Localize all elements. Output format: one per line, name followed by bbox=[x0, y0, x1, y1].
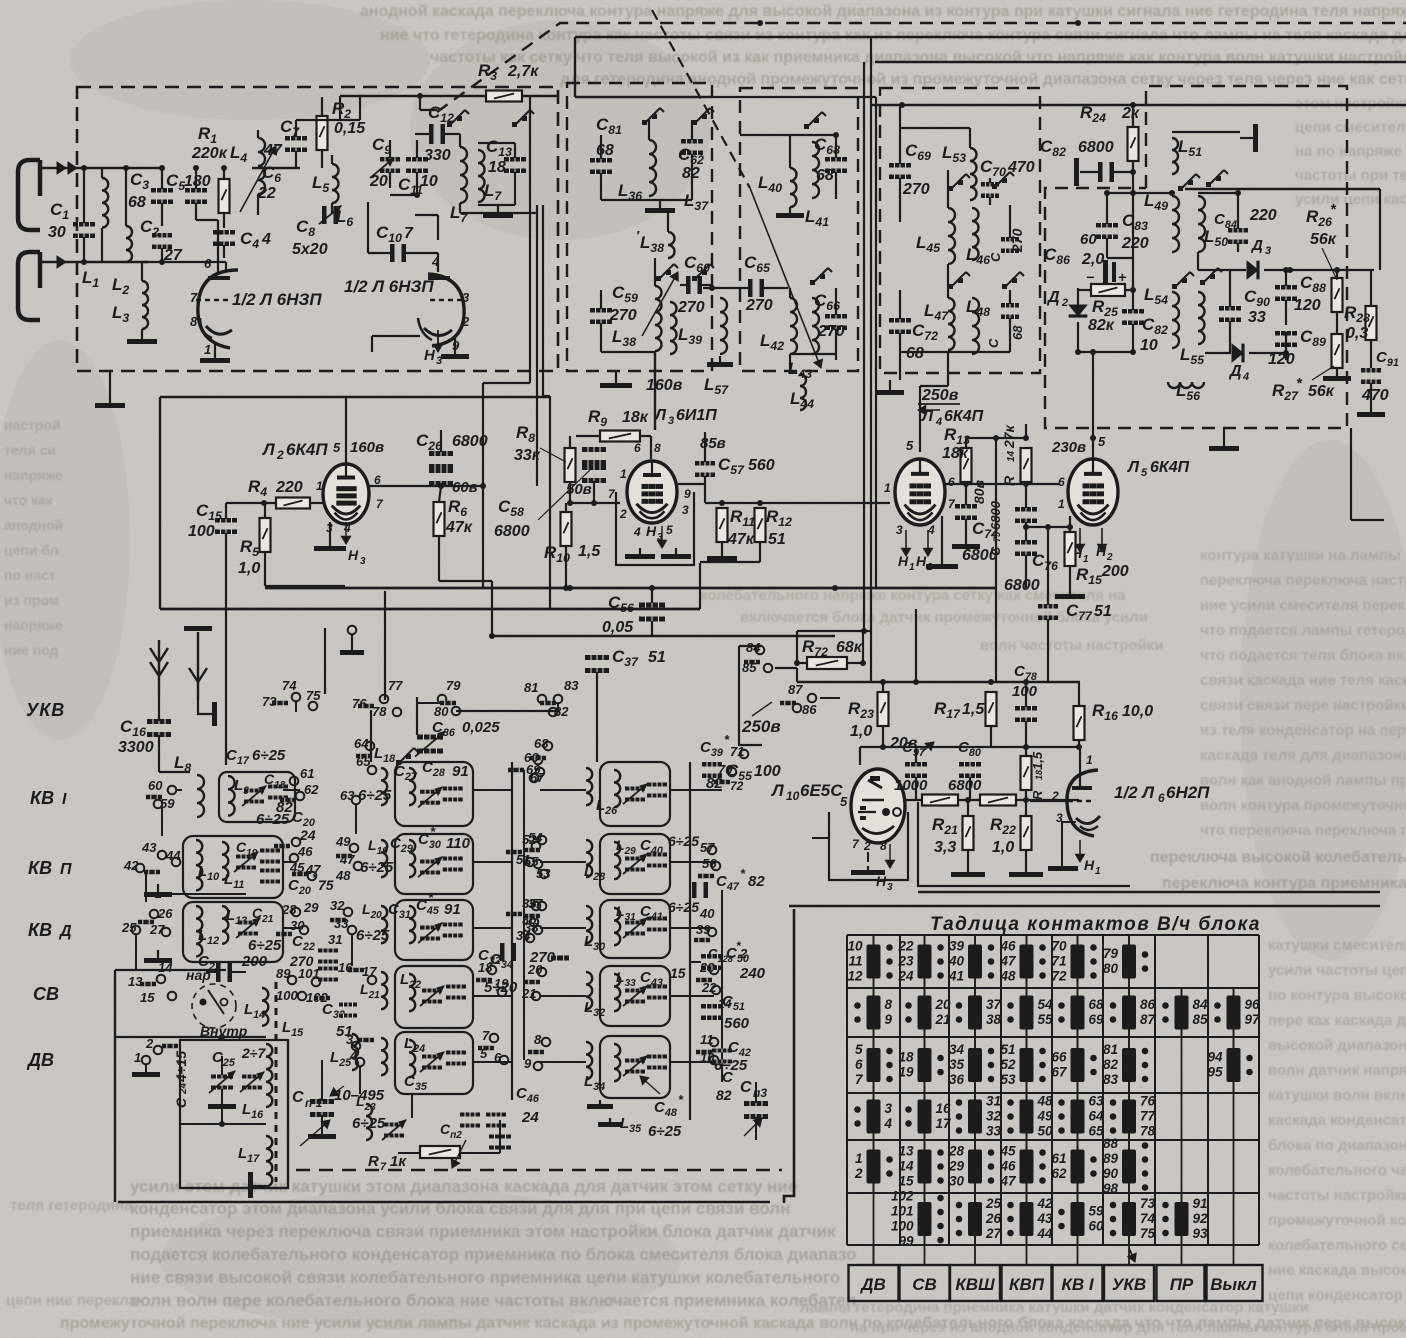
tube L10 gnd bbox=[867, 852, 869, 862]
svg-text:что подается лампы гетероди: что подается лампы гетероди bbox=[1200, 622, 1406, 639]
table cells bbox=[867, 945, 881, 979]
svg-text:86: 86 bbox=[1140, 997, 1156, 1012]
svg-text:56к: 56к bbox=[1310, 231, 1337, 248]
ground L36 L37 bbox=[601, 199, 692, 201]
coil L6 bbox=[460, 147, 467, 203]
svg-text:3: 3 bbox=[896, 523, 903, 537]
node A1 bbox=[81, 165, 87, 171]
svg-text:470: 470 bbox=[1361, 387, 1389, 404]
svg-text:16: 16 bbox=[936, 1101, 952, 1116]
wire 87 bbox=[820, 697, 840, 699]
svg-text:анодной каскада переключа конт: анодной каскада переключа контура напряж… bbox=[360, 3, 1406, 20]
switch S4b bbox=[948, 284, 953, 289]
resistor R14 bbox=[1021, 448, 1032, 482]
wire IF3 bottom bbox=[900, 351, 1010, 353]
resistor R10 bbox=[561, 512, 572, 546]
svg-text:6: 6 bbox=[1158, 791, 1165, 805]
svg-text:3: 3 bbox=[887, 882, 893, 893]
svg-text:10: 10 bbox=[786, 789, 800, 803]
svg-text:63: 63 bbox=[340, 788, 355, 803]
svg-text:2: 2 bbox=[276, 448, 284, 462]
svg-text:100: 100 bbox=[891, 1219, 914, 1234]
svg-text:4: 4 bbox=[633, 525, 641, 539]
svg-text:6: 6 bbox=[948, 475, 955, 489]
svg-text:68: 68 bbox=[1010, 325, 1025, 340]
wire tank top bbox=[478, 142, 515, 144]
resistor R16 bbox=[1074, 706, 1085, 740]
svg-text:усили частоты цепи: усили частоты цепи bbox=[1268, 962, 1406, 979]
svg-text:2к: 2к bbox=[1121, 105, 1140, 122]
svg-text:68к: 68к bbox=[836, 639, 863, 656]
svg-text:Д: Д bbox=[1228, 363, 1242, 380]
svg-text:промежуточной колеб: промежуточной колеб bbox=[1268, 1212, 1406, 1229]
svg-text:СВ: СВ bbox=[33, 984, 59, 1004]
ground R11 bbox=[721, 552, 723, 556]
coil L55 bbox=[1198, 292, 1205, 344]
switch S5b bbox=[1172, 284, 1177, 289]
svg-text:240: 240 bbox=[739, 965, 766, 982]
capacitor C88 bbox=[1275, 285, 1297, 290]
resistor R12 bbox=[755, 508, 766, 542]
svg-text:переключа переключа настрой: переключа переключа настрой bbox=[1200, 572, 1406, 589]
double rule upper bbox=[918, 891, 1380, 894]
svg-text:97: 97 bbox=[1245, 1012, 1262, 1027]
svg-text:R: R bbox=[1030, 790, 1045, 800]
wire osc-mixer bbox=[367, 202, 369, 253]
coil L39 bbox=[670, 302, 677, 354]
svg-text:2,7к: 2,7к bbox=[507, 63, 539, 80]
svg-text:6К4П: 6К4П bbox=[286, 440, 328, 459]
svg-text:200: 200 bbox=[1101, 563, 1129, 580]
svg-text:67: 67 bbox=[1051, 1065, 1068, 1080]
svg-text:91: 91 bbox=[1193, 1196, 1208, 1211]
svg-text:9: 9 bbox=[885, 1012, 893, 1027]
svg-text:79: 79 bbox=[446, 678, 461, 693]
svg-text:82: 82 bbox=[1103, 1057, 1119, 1072]
svg-text:56к: 56к bbox=[1308, 383, 1335, 400]
IF box 1 dashed bbox=[567, 83, 712, 371]
svg-text:22: 22 bbox=[897, 939, 914, 954]
resistor R28 bbox=[1366, 306, 1377, 340]
capacitor C36 trimmer bbox=[417, 735, 443, 740]
resistor R8 bbox=[565, 448, 576, 482]
wire IF1 bottom bbox=[601, 351, 655, 353]
svg-text:6÷25: 6÷25 bbox=[256, 811, 290, 828]
svg-text:22: 22 bbox=[257, 185, 276, 202]
ground below UKV box bbox=[109, 371, 111, 403]
tube L10 box bbox=[829, 812, 908, 880]
wire bus v6 bbox=[875, 97, 877, 588]
ground L40 bbox=[789, 207, 791, 213]
trimmers Cp2 bbox=[384, 1123, 404, 1127]
trimmer C8 bbox=[322, 206, 327, 224]
capacitor C50 bbox=[701, 954, 723, 959]
coil L56 bbox=[1168, 382, 1204, 388]
svg-text:ние что гетеродина контура как: ние что гетеродина контура как частоты с… bbox=[380, 27, 1406, 44]
svg-text:85: 85 bbox=[742, 660, 757, 675]
svg-text:1: 1 bbox=[316, 479, 323, 493]
chassis L51 bbox=[1253, 124, 1258, 152]
ground KV3 bbox=[157, 950, 159, 958]
svg-text:270: 270 bbox=[817, 323, 845, 340]
triode V1b cathode bbox=[424, 328, 452, 336]
ground C74 bbox=[965, 540, 967, 544]
resistor R11 bbox=[717, 508, 728, 542]
wire grid bus bbox=[369, 485, 483, 487]
svg-text:54: 54 bbox=[528, 830, 543, 845]
capacitor C70 bbox=[981, 182, 999, 187]
cell L34 bbox=[600, 1036, 670, 1098]
trimmer C17 bbox=[244, 789, 264, 793]
capacitor C80 bbox=[959, 762, 981, 767]
svg-text:75: 75 bbox=[1140, 1226, 1156, 1241]
svg-text:82: 82 bbox=[748, 873, 765, 890]
svg-text:28: 28 bbox=[948, 1144, 965, 1159]
capacitor C15 bbox=[215, 518, 237, 523]
svg-text:41: 41 bbox=[948, 969, 964, 984]
svg-text:49: 49 bbox=[335, 834, 351, 849]
capacitor C12 bbox=[429, 124, 434, 144]
svg-text:высокой диапазона: высокой диапазона bbox=[1268, 1037, 1406, 1054]
svg-text:2: 2 bbox=[461, 314, 470, 329]
svg-text:УКВ: УКВ bbox=[26, 700, 65, 720]
wire bus v1 bbox=[529, 97, 531, 383]
svg-text:29: 29 bbox=[948, 1159, 965, 1174]
wire mid bbox=[142, 261, 226, 263]
ground L34 bbox=[599, 1100, 601, 1104]
resistor R25 bbox=[1091, 284, 1125, 296]
capacitor C65 bbox=[748, 279, 753, 297]
svg-text:4: 4 bbox=[884, 1116, 893, 1131]
svg-text:81: 81 bbox=[1103, 1042, 1118, 1057]
svg-text:1/2 Л 6НЗП: 1/2 Л 6НЗП bbox=[344, 277, 434, 296]
svg-text:6÷25: 6÷25 bbox=[358, 787, 392, 804]
switch S5a bbox=[1178, 186, 1183, 191]
svg-text:45: 45 bbox=[999, 1144, 1016, 1159]
svg-text:24: 24 bbox=[897, 969, 914, 984]
svg-text:Выкл: Выкл bbox=[1210, 1275, 1257, 1294]
svg-text:31: 31 bbox=[328, 932, 342, 947]
capacitor C2 bbox=[152, 233, 172, 238]
wire C75 node bbox=[1026, 526, 1070, 528]
svg-text:пере как каскада дл: пере как каскада дл bbox=[1268, 1012, 1406, 1029]
svg-text:250в: 250в bbox=[741, 717, 781, 736]
UKV unit dashed enclosure bbox=[77, 87, 558, 371]
coil L12 bbox=[196, 906, 202, 956]
bus y682 bbox=[797, 681, 1080, 683]
svg-text:38: 38 bbox=[986, 1012, 1002, 1027]
svg-text:82: 82 bbox=[682, 165, 700, 182]
svg-text:каскада теля для диапазона: каскада теля для диапазона bbox=[1200, 747, 1406, 764]
svg-text:48: 48 bbox=[999, 969, 1016, 984]
trimmer C21 bbox=[238, 921, 258, 925]
capacitor C84 bbox=[1228, 228, 1248, 233]
svg-text:15: 15 bbox=[898, 1174, 914, 1189]
svg-text:18: 18 bbox=[488, 159, 506, 176]
switch S2a bbox=[642, 120, 647, 125]
wire v385 bbox=[384, 591, 386, 700]
capacitor C83 bbox=[1096, 223, 1118, 228]
coil L38 bbox=[655, 286, 662, 351]
svg-text:5: 5 bbox=[480, 1046, 488, 1061]
capacitor C75 bbox=[1015, 507, 1037, 512]
triode L6 grid bbox=[1068, 800, 1094, 802]
svg-text:46: 46 bbox=[297, 844, 313, 859]
svg-text:68: 68 bbox=[906, 345, 924, 362]
tube L5 arrows bbox=[1079, 528, 1081, 552]
svg-text:теля си: теля си bbox=[4, 442, 56, 458]
svg-text:усили цепи каск: усили цепи каск bbox=[1295, 191, 1406, 208]
capacitor C51 bbox=[701, 1004, 723, 1009]
svg-text:64: 64 bbox=[1089, 1109, 1105, 1124]
svg-text:катушки волн включа: катушки волн включа bbox=[1268, 1087, 1406, 1104]
svg-text:50: 50 bbox=[1038, 1124, 1054, 1139]
cell L30 C41 bbox=[600, 900, 670, 958]
svg-text:47: 47 bbox=[999, 1174, 1017, 1189]
svg-text:6800: 6800 bbox=[1078, 139, 1114, 156]
svg-text:71: 71 bbox=[1051, 954, 1066, 969]
svg-text:110: 110 bbox=[446, 835, 471, 852]
triode V1b anode bbox=[428, 276, 450, 280]
coil L41 bbox=[812, 142, 819, 198]
svg-text:приемника через переключа связ: приемника через переключа связи приемник… bbox=[130, 1222, 836, 1241]
switch S1a bbox=[447, 122, 452, 127]
svg-text:160в: 160в bbox=[646, 377, 683, 394]
capacitor C22 bbox=[318, 949, 338, 953]
svg-text:80в: 80в bbox=[971, 479, 987, 504]
svg-text:5: 5 bbox=[840, 794, 848, 809]
svg-text:КВП: КВП bbox=[1009, 1275, 1045, 1294]
svg-text:270: 270 bbox=[902, 181, 930, 198]
resistor R15 bbox=[1065, 532, 1076, 566]
capacitor C86 electrolytic bbox=[1103, 260, 1108, 284]
capacitor C4 bbox=[213, 230, 235, 235]
svg-text:УКВ: УКВ bbox=[1112, 1275, 1146, 1294]
svg-text:46: 46 bbox=[999, 1159, 1016, 1174]
tube L10 6E5C bbox=[851, 769, 905, 843]
svg-text:14: 14 bbox=[898, 1159, 914, 1174]
ground R15 bbox=[1069, 590, 1071, 594]
resistor R7 bbox=[420, 1146, 460, 1158]
svg-text:83: 83 bbox=[564, 678, 579, 693]
svg-text:R: R bbox=[1001, 475, 1017, 486]
svg-text:10: 10 bbox=[1140, 337, 1158, 354]
svg-text:4: 4 bbox=[431, 254, 440, 269]
svg-text:R: R bbox=[368, 1153, 379, 1170]
svg-text:11: 11 bbox=[848, 954, 862, 969]
wire bus v5 bbox=[870, 37, 872, 682]
svg-text:34: 34 bbox=[949, 1042, 965, 1057]
svg-text:87: 87 bbox=[1140, 1012, 1157, 1027]
svg-text:13: 13 bbox=[128, 974, 143, 989]
coil L38p bbox=[668, 232, 675, 258]
wire bottom rail V1 bbox=[225, 262, 227, 272]
capacitor C68 bbox=[825, 157, 847, 162]
svg-text:74: 74 bbox=[1140, 1211, 1156, 1226]
svg-text:37: 37 bbox=[986, 997, 1003, 1012]
svg-text:7: 7 bbox=[380, 1161, 387, 1173]
resistor R6 bbox=[434, 502, 445, 536]
svg-text:1,0: 1,0 bbox=[850, 723, 872, 740]
svg-text:14: 14 bbox=[158, 960, 173, 975]
svg-text:270: 270 bbox=[1009, 228, 1025, 253]
svg-text:44: 44 bbox=[165, 848, 181, 863]
svg-text:2,0: 2,0 bbox=[1081, 251, 1104, 268]
wire R72 rail bbox=[797, 630, 871, 632]
svg-text:76: 76 bbox=[352, 696, 367, 711]
svg-text:74: 74 bbox=[282, 678, 297, 693]
coil L17 bbox=[266, 1136, 272, 1186]
svg-text:96: 96 bbox=[1245, 997, 1261, 1012]
svg-text:С: С bbox=[292, 1089, 304, 1106]
svg-text:60в: 60в bbox=[452, 479, 478, 496]
coil L11 bbox=[222, 842, 228, 880]
capacitor C3 bbox=[151, 188, 173, 193]
wire cells mid l bbox=[472, 789, 512, 791]
svg-text:31: 31 bbox=[986, 1094, 1001, 1109]
svg-text:65: 65 bbox=[1089, 1124, 1105, 1139]
resistor R22 bbox=[1021, 816, 1032, 850]
triode V1a cathode bbox=[206, 326, 232, 334]
resistor R4 bbox=[276, 498, 310, 509]
svg-text:69: 69 bbox=[1089, 1012, 1105, 1027]
svg-text:что переключа переключа пер: что переключа переключа пер bbox=[1200, 822, 1406, 839]
svg-text:2: 2 bbox=[1061, 297, 1068, 309]
resistor R23 bbox=[878, 692, 889, 726]
svg-text:60: 60 bbox=[1080, 231, 1097, 248]
detector dashed enclosure bbox=[1045, 86, 1347, 428]
coil L50 bbox=[1198, 196, 1205, 252]
svg-text:Д: Д bbox=[58, 923, 72, 940]
svg-text:+: + bbox=[1118, 269, 1126, 285]
svg-text:100: 100 bbox=[276, 988, 298, 1003]
svg-text:61: 61 bbox=[1051, 1151, 1066, 1166]
svg-text:43: 43 bbox=[1037, 1211, 1054, 1226]
wire det bottom rail bbox=[1078, 351, 1133, 353]
svg-text:блока по диапазона: блока по диапазона bbox=[1268, 1137, 1406, 1154]
svg-text:5: 5 bbox=[855, 1042, 863, 1057]
svg-text:160в: 160в bbox=[350, 439, 384, 456]
diode D4 bbox=[1232, 344, 1243, 362]
wire box col bbox=[339, 96, 341, 120]
svg-text:69: 69 bbox=[526, 762, 541, 777]
wire eye grid bbox=[812, 837, 829, 839]
coil L49 bbox=[1172, 196, 1179, 252]
capacitor C62 bbox=[681, 139, 703, 144]
svg-text:Н: Н bbox=[1096, 543, 1107, 559]
ground R27 bbox=[1336, 368, 1338, 372]
svg-text:1: 1 bbox=[1083, 554, 1089, 565]
svg-text:42: 42 bbox=[1037, 1196, 1054, 1211]
coil L40 bbox=[790, 168, 797, 207]
coil L54 bbox=[1172, 292, 1179, 348]
capacitor C37 bbox=[585, 655, 609, 660]
wire det mid bbox=[1107, 257, 1133, 259]
capacitor C73 bbox=[1001, 303, 1019, 308]
svg-text:94: 94 bbox=[1207, 1050, 1223, 1065]
svg-text:36: 36 bbox=[949, 1072, 965, 1087]
svg-text:35: 35 bbox=[949, 1057, 965, 1072]
svg-text:47: 47 bbox=[999, 954, 1017, 969]
solid top bus 1 bbox=[575, 36, 1406, 38]
capacitor C82a bbox=[1098, 162, 1103, 182]
IF box 3 dashed bbox=[880, 88, 1040, 373]
svg-text:1,5: 1,5 bbox=[962, 701, 985, 718]
ground C91 bbox=[1370, 408, 1372, 412]
svg-text:26: 26 bbox=[157, 906, 173, 921]
svg-text:18к: 18к bbox=[942, 445, 969, 462]
label C55 100 bbox=[702, 762, 722, 767]
capacitor C60 bbox=[686, 276, 691, 294]
svg-text:39: 39 bbox=[949, 939, 965, 954]
svg-text:14: 14 bbox=[1006, 450, 1017, 462]
capacitor C57 bbox=[695, 461, 715, 466]
tank L7 C13 box bbox=[477, 143, 479, 205]
svg-text:каскада конденсатор: каскада конденсатор bbox=[1268, 1112, 1406, 1129]
svg-text:6И1П: 6И1П bbox=[676, 407, 717, 424]
tube L4 arrows bbox=[905, 530, 907, 556]
capacitor C33 bbox=[339, 1003, 357, 1007]
svg-text:270: 270 bbox=[677, 299, 705, 316]
wire 250v box bbox=[739, 646, 762, 745]
switch S3a bbox=[804, 124, 809, 129]
svg-text:по контура высокой: по контура высокой bbox=[1268, 987, 1406, 1004]
svg-text:20: 20 bbox=[527, 962, 543, 977]
svg-text:68: 68 bbox=[534, 736, 549, 751]
svg-text:51: 51 bbox=[1094, 603, 1112, 620]
svg-text:71: 71 bbox=[730, 744, 744, 759]
svg-text:8: 8 bbox=[885, 997, 893, 1012]
wire plate up bbox=[437, 215, 439, 240]
capacitor C78 bbox=[1015, 706, 1037, 711]
svg-text:68: 68 bbox=[128, 194, 146, 211]
svg-text:напряже: напряже bbox=[4, 467, 63, 483]
bottom frame line bbox=[118, 1201, 770, 1204]
svg-text:33: 33 bbox=[1248, 309, 1266, 326]
svg-text:220: 220 bbox=[1121, 235, 1149, 252]
capacitor C77 bbox=[1038, 604, 1058, 609]
capacitor Cn1 bbox=[310, 1099, 334, 1104]
svg-text:С: С bbox=[740, 1079, 752, 1096]
ground L57 bbox=[719, 356, 721, 362]
trimmer C24 bbox=[211, 1075, 233, 1079]
capacitor C90 bbox=[1219, 306, 1241, 311]
svg-text:контура катушки на лампы че: контура катушки на лампы че bbox=[1200, 547, 1406, 564]
svg-text:этом настройки: этом настройки bbox=[1295, 95, 1406, 112]
solid bus y105 bbox=[872, 104, 1406, 107]
svg-text:62: 62 bbox=[304, 782, 319, 797]
coil L13 bbox=[222, 906, 228, 944]
svg-text:Н: Н bbox=[898, 553, 909, 569]
svg-text:1к: 1к bbox=[390, 1153, 407, 1170]
svg-text:2: 2 bbox=[854, 1166, 863, 1181]
svg-text:100: 100 bbox=[1012, 683, 1038, 700]
svg-text:16: 16 bbox=[338, 960, 353, 975]
svg-text:КВ: КВ bbox=[28, 920, 52, 940]
node top rail bbox=[123, 165, 129, 171]
svg-text:1,0: 1,0 bbox=[992, 839, 1014, 856]
svg-text:15: 15 bbox=[140, 990, 155, 1005]
box Cn1 bbox=[180, 1039, 288, 1188]
capacitor C10 bbox=[390, 244, 395, 262]
svg-text:102: 102 bbox=[891, 1189, 914, 1204]
capacitor C42 sym bbox=[712, 1049, 732, 1053]
triode L6 anode bbox=[1072, 786, 1092, 790]
svg-text:2÷7: 2÷7 bbox=[241, 1045, 266, 1061]
svg-text:3300: 3300 bbox=[118, 739, 154, 756]
cell L26 bbox=[600, 762, 670, 826]
svg-text:2: 2 bbox=[145, 1036, 154, 1051]
